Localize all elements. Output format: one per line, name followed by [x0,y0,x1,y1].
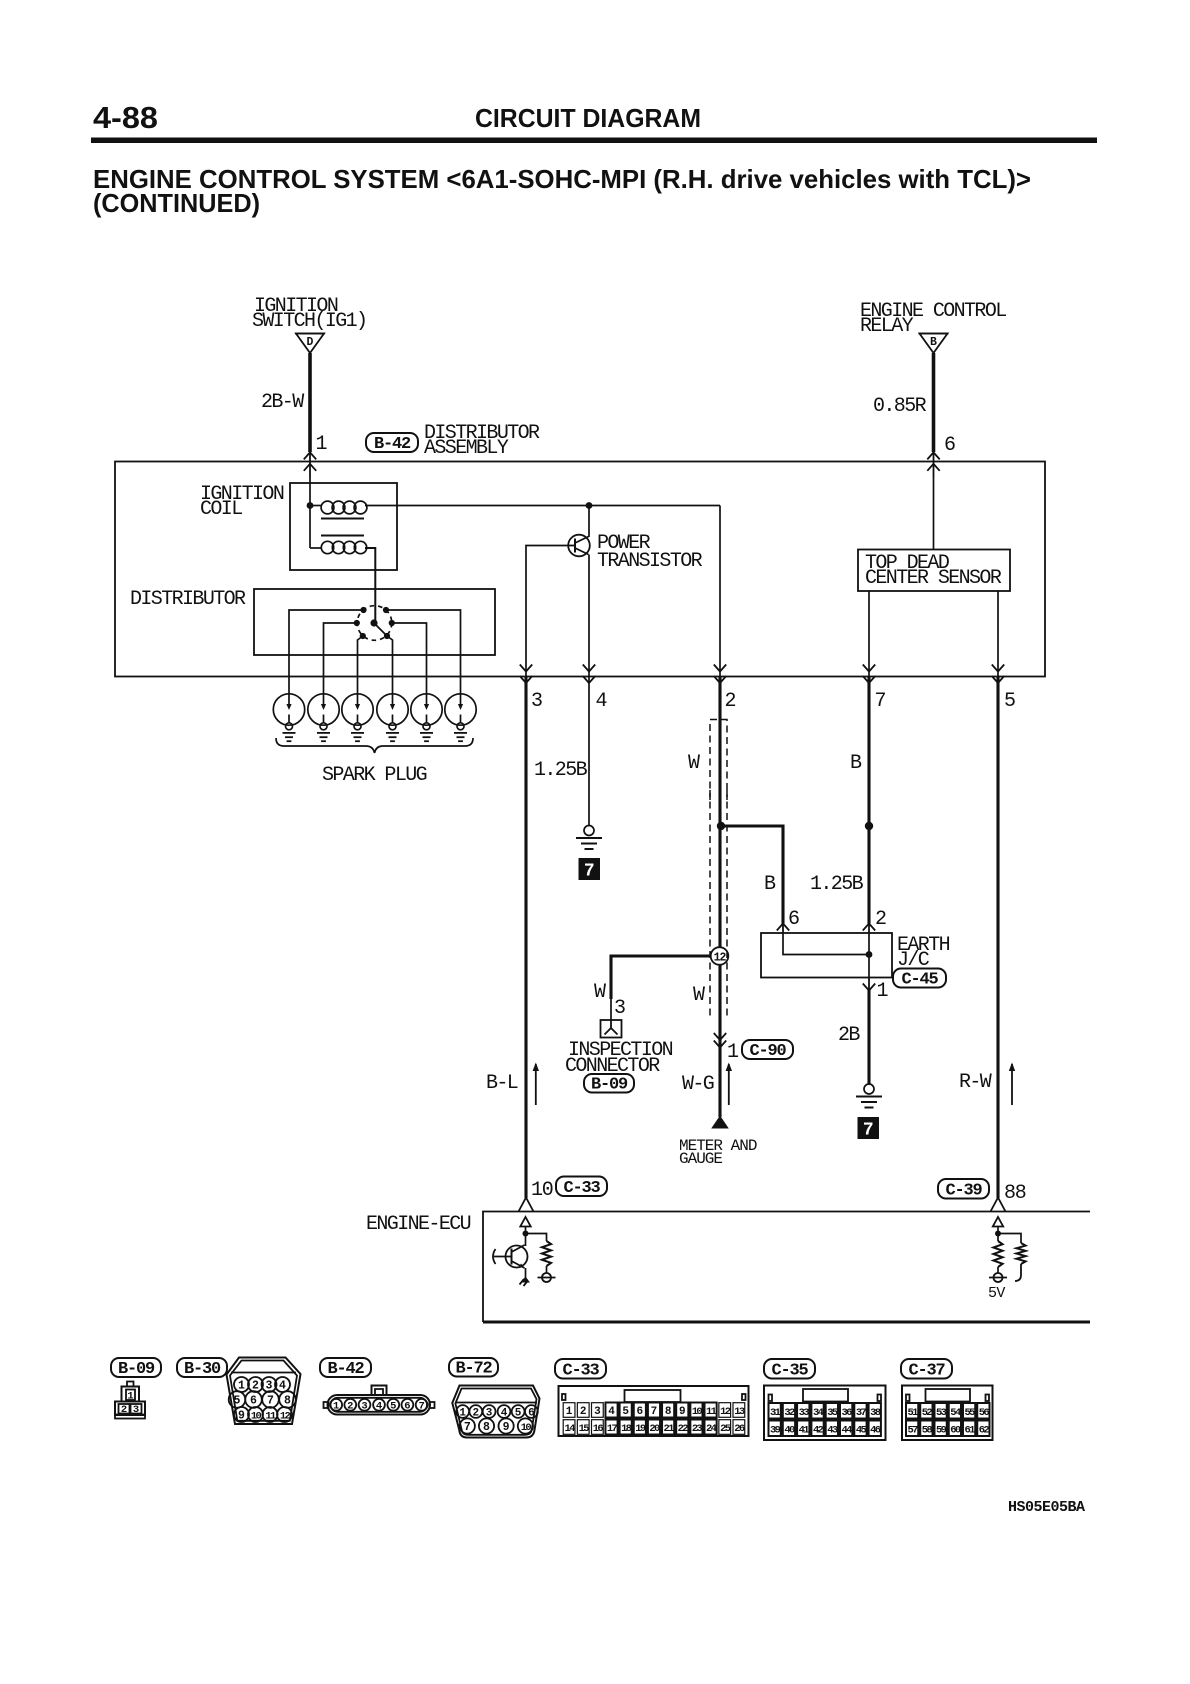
junction dot at coil primary [307,502,314,509]
svg-text:TRANSISTOR: TRANSISTOR [597,550,703,573]
connector B-09 pinout [115,1382,145,1419]
svg-text:CIRCUIT DIAGRAM: CIRCUIT DIAGRAM [475,103,701,133]
ECU second resistor at pin 88 [998,1234,1021,1244]
svg-text:8: 8 [483,1421,490,1434]
wire power transistor emitter down (becomes wire 4) [588,555,590,678]
svg-text:C-33: C-33 [563,1179,600,1198]
svg-text:2B: 2B [838,1024,860,1047]
connector label C-37 (bottom row) [901,1359,952,1379]
pin 5 exit arrows from distributor assembly [992,665,1004,672]
spark plug wire 4 from cap [387,636,393,694]
meter and gauge terminal triangle [711,1116,729,1129]
svg-text:2: 2 [580,1406,587,1418]
connector label C-90 [742,1040,793,1059]
svg-text:1: 1 [566,1406,573,1418]
svg-text:W: W [594,981,606,1004]
svg-text:(CONTINUED): (CONTINUED) [93,188,260,218]
spark plug 1 [273,694,304,741]
svg-text:W: W [688,752,700,775]
junction dot: coil feed to power transistor [586,502,593,509]
distributor assembly outline box [115,462,1045,677]
ECU pin 10 input arrow [520,1217,530,1227]
svg-text:C-35: C-35 [771,1361,808,1380]
svg-text:54: 54 [950,1407,961,1419]
ignition coil primary winding [310,505,322,507]
earth J/C internal wiring [783,933,869,955]
connector C-35 pinout [764,1386,886,1441]
svg-text:11: 11 [706,1406,717,1418]
svg-text:B: B [930,336,937,349]
svg-text:26: 26 [734,1423,745,1435]
pin 3 exit arrows from distributor assembly [520,665,532,672]
svg-text:C-33: C-33 [562,1361,599,1380]
svg-text:7: 7 [584,862,595,882]
svg-text:61: 61 [965,1425,976,1437]
svg-text:36: 36 [842,1407,853,1419]
ignition coil secondary winding [309,506,311,549]
wire 0.85R from engine control relay, thick [932,353,936,452]
svg-text:3: 3 [594,1406,601,1418]
svg-text:R-W: R-W [959,1071,992,1094]
svg-text:B-42: B-42 [327,1360,364,1379]
wire 4 1.25B to ground [588,677,590,826]
svg-text:6: 6 [637,1406,644,1418]
pin 2 exit arrows from distributor assembly [714,665,726,672]
svg-text:7: 7 [875,690,886,713]
svg-text:7: 7 [863,1121,874,1141]
connector triangle B (from engine control relay) [919,334,949,354]
connector label B-42 [366,433,418,452]
svg-text:4: 4 [608,1406,615,1418]
svg-text:58: 58 [922,1425,933,1437]
svg-text:1: 1 [316,433,328,456]
svg-text:43: 43 [827,1425,838,1437]
svg-text:1: 1 [333,1401,339,1413]
svg-text:4-88: 4-88 [93,100,158,135]
distributor rotor dashed circle [357,606,392,641]
svg-text:35: 35 [827,1407,838,1419]
svg-text:17: 17 [607,1423,618,1435]
direction arrow (up) beside wire 5 [1011,1064,1013,1105]
svg-text:53: 53 [936,1407,947,1419]
svg-text:22: 22 [678,1423,689,1435]
pin 1 exit fork below earth J/C [868,978,870,991]
svg-text:9: 9 [238,1410,245,1423]
wire TDC sensor right lead (to pin 5) [997,591,999,677]
connector label B-09 [584,1074,634,1093]
svg-text:B-L: B-L [486,1072,518,1095]
svg-text:D: D [307,336,314,349]
svg-text:60: 60 [950,1425,961,1437]
svg-text:SWITCH(IG1): SWITCH(IG1) [252,310,366,333]
svg-text:CENTER SENSOR: CENTER SENSOR [865,567,1002,590]
svg-text:56: 56 [979,1407,990,1419]
svg-text:39: 39 [770,1425,781,1437]
svg-text:7: 7 [651,1406,658,1418]
svg-text:COIL: COIL [200,498,242,521]
rotor center dot and arm [370,619,377,626]
svg-text:GAUGE: GAUGE [679,1150,722,1168]
svg-text:14: 14 [564,1423,575,1435]
wire 2B-W from ignition switch, thick [308,353,312,452]
svg-text:C-39: C-39 [945,1181,982,1200]
earth J/C box [761,933,892,978]
svg-text:9: 9 [503,1421,510,1434]
svg-text:ASSEMBLY: ASSEMBLY [424,437,509,460]
svg-text:3: 3 [531,690,542,713]
connector triangle D (from ignition switch) [295,334,325,354]
direction arrow (up) beside wire 3 [535,1064,537,1105]
svg-text:3: 3 [361,1401,367,1413]
svg-text:3: 3 [614,997,625,1020]
direction arrow (up) beside wire 2 [728,1064,730,1105]
distributor cap contacts [360,607,366,613]
svg-text:88: 88 [1004,1182,1026,1205]
spark plug wire 1 from cap [289,610,364,694]
svg-text:13: 13 [734,1406,745,1418]
ECU 5V pull-up resistor [997,1234,999,1242]
wire power transistor base to wire 3 [526,546,568,678]
svg-text:12: 12 [280,1411,291,1423]
ECU pin 88 junction dot [995,1231,1001,1237]
svg-text:18: 18 [621,1423,632,1435]
svg-text:16: 16 [593,1423,604,1435]
svg-text:B-42: B-42 [374,435,411,454]
svg-text:6: 6 [404,1401,410,1413]
svg-text:SPARK PLUG: SPARK PLUG [322,764,427,787]
svg-text:20: 20 [649,1423,660,1435]
wire 5 R-W down to ECU pin 88, thick [996,677,999,1198]
wire 2B to ground, thick [867,990,870,1085]
wire 3 B-L down to ECU pin 10, thick [524,677,527,1198]
connector B-42 pinout [324,1386,435,1415]
wire 2 below joint 12, thick [718,965,721,1118]
svg-text:42: 42 [813,1425,824,1437]
svg-text:59: 59 [936,1425,947,1437]
ECU internal supply symbol (pin 10) [538,1277,556,1279]
connector C-33 pinout [559,1386,749,1436]
inspection connector terminal [601,1020,622,1038]
svg-text:HS05E05BA: HS05E05BA [1008,1499,1085,1516]
svg-text:46: 46 [870,1425,881,1437]
wire pin 6 to top dead center sensor [933,478,935,550]
svg-text:8: 8 [284,1395,291,1408]
connector label B-42 (bottom row) [320,1358,371,1377]
connector B-30 pinout [227,1358,301,1425]
svg-text:11: 11 [265,1411,276,1423]
branch wire to inspection connector, thick [611,956,711,999]
svg-text:W-G: W-G [682,1073,714,1096]
pin 1 entry arrows into distributor assembly [309,452,311,478]
svg-text:5: 5 [515,1408,522,1420]
svg-text:38: 38 [870,1407,881,1419]
svg-text:B-30: B-30 [184,1360,221,1379]
svg-text:5: 5 [234,1395,241,1408]
svg-text:C-45: C-45 [901,970,938,989]
svg-text:0.85R: 0.85R [873,395,927,418]
earth point 7 marker [858,1117,880,1139]
svg-text:10: 10 [251,1411,262,1423]
wire 3 fork into ECU [519,1198,534,1212]
distributor box [254,589,495,655]
svg-text:6: 6 [528,1408,535,1420]
ground symbol (wire 7) [864,1084,874,1094]
svg-text:B: B [850,752,862,775]
pin 4 exit arrows from distributor assembly [583,665,595,672]
svg-text:12: 12 [714,952,727,965]
svg-text:8: 8 [665,1406,672,1418]
ECU internal 5V supply symbol [989,1277,1007,1279]
engine ECU box (open right side) [483,1212,1090,1323]
svg-text:23: 23 [692,1423,703,1435]
svg-text:40: 40 [784,1425,795,1437]
pin 6 entry arrows into distributor assembly [933,452,935,478]
svg-text:6: 6 [944,434,955,457]
svg-text:15: 15 [579,1423,590,1435]
connector label C-33 (bottom row) [555,1359,606,1379]
svg-text:19: 19 [635,1423,646,1435]
svg-text:5: 5 [390,1401,396,1413]
spark plug 3 [342,694,373,741]
wire junction to power transistor collector [588,506,590,538]
svg-text:1: 1 [727,1041,739,1064]
junction dot wire 2 branch B [717,822,725,830]
ignition coil core lines [321,518,364,520]
svg-text:34: 34 [813,1407,824,1419]
svg-text:W: W [693,984,705,1007]
svg-text:B-72: B-72 [455,1359,492,1378]
svg-text:C-90: C-90 [749,1042,786,1061]
svg-text:52: 52 [922,1407,933,1419]
svg-text:5V: 5V [988,1285,1005,1302]
ECU pin 10 junction dot [523,1231,529,1237]
pin 7 exit arrows from distributor assembly [863,665,875,672]
connector label B-72 (bottom row) [449,1358,498,1377]
wire secondary to distributor rotor [365,548,375,623]
header rule [91,138,1097,144]
svg-text:2: 2 [875,908,886,931]
earth point 7 marker [579,858,601,880]
C-90 crossing arrows on wire 2 [714,1033,726,1040]
wire 7 B down to earth J/C, thick [867,677,870,924]
svg-text:4: 4 [376,1401,382,1413]
svg-text:1: 1 [459,1408,466,1420]
connector label B-30 (bottom row) [177,1358,227,1377]
svg-text:31: 31 [770,1407,781,1419]
svg-text:2: 2 [472,1408,479,1420]
svg-text:57: 57 [908,1425,919,1437]
spark plug wire 2 from cap [324,623,357,694]
spark plug 4 [377,694,408,741]
spark plug wire 5 from cap [392,623,427,694]
svg-text:24: 24 [706,1423,717,1435]
svg-text:10: 10 [521,1422,532,1434]
ground symbol (wire 4) [584,826,594,836]
connector label C-33 [556,1177,607,1197]
wire 5 fork into ECU [991,1198,1006,1212]
branch wire B to earth J/C pin 6, thick [721,826,783,924]
svg-text:C-37: C-37 [908,1361,945,1380]
svg-text:62: 62 [979,1425,990,1437]
svg-text:7: 7 [418,1401,424,1413]
svg-text:37: 37 [856,1407,867,1419]
connector B-72 pinout [452,1386,539,1438]
svg-text:21: 21 [664,1423,675,1435]
svg-text:DISTRIBUTOR: DISTRIBUTOR [130,588,246,611]
svg-text:5: 5 [622,1406,629,1418]
spark plug 2 [308,694,339,741]
svg-text:ENGINE-ECU: ENGINE-ECU [366,1213,471,1236]
svg-text:6: 6 [250,1395,257,1408]
svg-text:10: 10 [692,1406,703,1418]
svg-text:1.25B: 1.25B [810,873,864,896]
svg-text:9: 9 [679,1406,686,1418]
svg-text:10: 10 [531,1179,553,1202]
svg-text:41: 41 [799,1425,810,1437]
svg-text:1.25B: 1.25B [534,759,588,782]
pin 2 entry arrow into earth J/C [868,923,870,933]
svg-text:25: 25 [720,1423,731,1435]
spark plug 5 [411,694,442,741]
connector label B-09 (bottom row) [111,1358,161,1377]
svg-text:7: 7 [267,1395,274,1408]
svg-text:2: 2 [347,1401,353,1413]
spark plug 6 [445,694,476,741]
top dead center sensor box [858,550,1010,592]
svg-text:RELAY: RELAY [860,315,914,338]
spark plug brace [276,738,473,753]
pin 6 entry arrow into earth J/C [782,923,784,933]
svg-text:4: 4 [279,1380,286,1393]
spark plug wire 6 from cap [386,610,461,694]
svg-text:44: 44 [842,1425,853,1437]
connector C-37 pinout [902,1386,993,1441]
svg-text:B-09: B-09 [118,1360,155,1379]
svg-text:12: 12 [720,1406,731,1418]
wire pin1 to coil [309,478,311,506]
svg-text:55: 55 [965,1407,976,1419]
svg-text:33: 33 [799,1407,810,1419]
connector label C-35 (bottom row) [764,1359,815,1379]
ECU resistor continuation hook [1015,1264,1021,1281]
wire 2 inside box [719,506,721,678]
ignition coil box [290,483,397,570]
svg-text:2B-W: 2B-W [261,391,304,414]
svg-text:B: B [764,873,776,896]
svg-text:4: 4 [596,690,607,713]
svg-text:45: 45 [856,1425,867,1437]
svg-text:51: 51 [908,1407,919,1419]
svg-text:7: 7 [464,1421,471,1434]
power transistor Q [568,535,590,557]
connector label C-45 [893,969,946,988]
joint connector circle 12 on wire 2 [711,947,729,965]
ECU internal transistor [525,1234,527,1247]
junction dot on wire 7 [865,822,873,830]
ECU pin 88 input arrow [993,1217,1003,1227]
svg-text:6: 6 [788,908,799,931]
svg-text:B-09: B-09 [591,1075,628,1094]
connector label C-39 [938,1179,989,1199]
svg-text:32: 32 [784,1407,795,1419]
ECU transistor emitter to internal ground [525,1268,527,1278]
svg-text:5: 5 [1004,690,1015,713]
spark plug wire 3 from cap [358,636,363,694]
ECU pull-up resistor at pin 10 [526,1234,547,1242]
svg-text:1: 1 [877,980,889,1003]
wire 2 W down, thick [718,677,721,948]
svg-text:2: 2 [725,690,736,713]
wire TDC sensor left lead (to pin 7) [868,591,870,677]
shielding dashed box around wire 2 [710,720,727,801]
